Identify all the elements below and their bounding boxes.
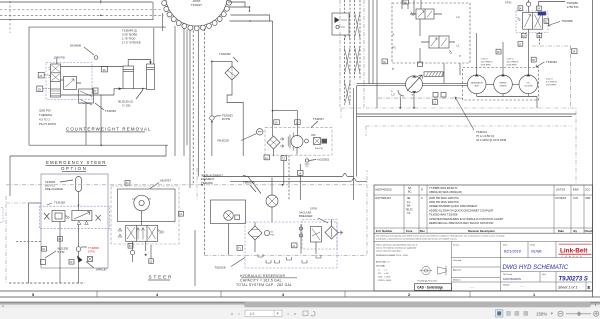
svg-text:and details contained herein i: and details contained herein is prohibit… (376, 238, 458, 241)
svg-text:P: P (392, 67, 394, 71)
svg-text:2: 2 (408, 293, 410, 297)
node dot accumulator line (78, 204, 80, 206)
svg-text:5 PSI: 5 PSI (58, 250, 65, 254)
nav controls (231, 310, 315, 316)
svg-text:5 PSI: 5 PSI (310, 207, 317, 211)
wire staircase right of swivel 1 (228, 2, 245, 7)
leader replacement element (243, 176, 261, 194)
svg-text:›: › (595, 303, 597, 309)
svg-text:COUNTERWEIGHT REMOVAL: COUNTERWEIGHT REMOVAL (66, 127, 152, 132)
pump feed wires (477, 29, 529, 75)
svg-text:∅ .531: ∅ .531 (122, 103, 131, 107)
port square above pump (418, 62, 423, 67)
swivel downline 7 (203, 29, 205, 256)
swivel downline 9 (211, 61, 213, 115)
svg-text:M19740202S: M19740202S (503, 277, 521, 281)
port square 31 (403, 0, 409, 5)
svg-text:M19740202S: M19740202S (376, 188, 392, 192)
revision row C text (376, 196, 591, 225)
wire return bus upper (203, 174, 354, 177)
wire cylinder top link (128, 60, 150, 67)
svg-text:UPDATED PRESSURES IN HYDRAULIC: UPDATED PRESSURES IN HYDRAULIC FUNCTION … (429, 217, 504, 221)
wire long vertical to carrier (272, 21, 274, 136)
svg-text:unless otherwise specified.: unless otherwise specified. (376, 250, 401, 253)
tandem pump enclosure (463, 68, 539, 101)
svg-text:R17T901327: R17T901327 (376, 196, 392, 200)
wire 5psi dashed (16, 241, 42, 243)
port square 10 top (295, 120, 301, 125)
svg-text:ADDED 61J2544 X4 QUICK DISCONN: ADDED 61J2544 X4 QUICK DISCONNET COUPLER (429, 208, 493, 212)
svg-text:6.2 GPM @: 6.2 GPM @ (546, 82, 557, 84)
wire staircase right of swivel 3 (231, 15, 270, 21)
svg-text:8A: 8A (407, 204, 410, 208)
svg-text:COOLER: COOLER (524, 85, 533, 87)
wire accumulator to valve (78, 192, 80, 211)
svg-text:E.O. Number: E.O. Number (376, 229, 392, 233)
steering orbital unit body (118, 189, 176, 225)
wire tick x100 (100, 0, 102, 4)
svg-text:150%: 150% (536, 312, 547, 317)
svg-text:2276 RPM: 2276 RPM (481, 65, 491, 67)
svg-text:REFERENCE ASME Y14.5 - 1994: REFERENCE ASME Y14.5 - 1994 (376, 254, 408, 257)
svg-text:852 PSI: 852 PSI (45, 184, 55, 188)
svg-text:EMERGENCY STEER: EMERGENCY STEER (46, 160, 107, 165)
port squares U CI (433, 93, 446, 98)
check valve T9J0053 (210, 114, 233, 157)
check valve 14R0187 (77, 251, 107, 271)
port square em1 (58, 237, 63, 242)
svg-text:PSI: PSI (271, 234, 275, 236)
steer gray enclosure (111, 186, 179, 244)
sheet bottom border outer (0, 296, 600, 298)
svg-text:A6J0757: A6J0757 (160, 179, 171, 183)
check valve T7J0806 red label (76, 246, 99, 254)
swivel downline 1 (174, 26, 176, 156)
svg-text:CAPACITY = 162.5 GAL: CAPACITY = 162.5 GAL (240, 279, 282, 283)
label T5J0037 (311, 117, 324, 128)
svg-text:R6J0218: R6J0218 (218, 139, 230, 143)
svg-text:0.62 CI: 0.62 CI (546, 79, 553, 81)
svg-text:2276 RPM: 2276 RPM (546, 85, 556, 87)
blue handwritten-style entries (503, 250, 588, 283)
svg-text:T5J0088: T5J0088 (562, 19, 573, 23)
wire pump supply drops (444, 63, 460, 83)
svg-text:T9J0018: T9J0018 (215, 265, 226, 269)
reservoir gray boundary (204, 170, 367, 255)
TITLEBLOCK_LAYER (374, 185, 593, 291)
breather stack (299, 224, 302, 242)
svg-text:Material: Material (453, 279, 461, 282)
svg-text:Sheet 1 of 1: Sheet 1 of 1 (558, 285, 577, 289)
svg-text:E: E (588, 285, 591, 290)
svg-text:42.4 GPM @ 2276 RPM: 42.4 GPM @ 2276 RPM (476, 138, 507, 142)
wire top solid lower (0, 19, 153, 21)
wire option drops to bottom (60, 268, 79, 284)
svg-text:Revision Description: Revision Description (468, 229, 495, 233)
svg-text:MW: MW (586, 196, 591, 200)
boundary dash-dot left horiz (6, 202, 29, 204)
port square 16 top (274, 120, 280, 125)
wire cylinder upper feed from box (153, 28, 155, 64)
node dot y110 (272, 110, 274, 112)
svg-text:»: » (294, 311, 297, 316)
swivel downline 2 (183, 29, 185, 157)
cylinder labels T5J0049 (122, 29, 141, 45)
boundary dash-dot under pump (378, 97, 462, 99)
emergency steer solenoid valve (44, 211, 101, 225)
pump 14R carrier (288, 133, 303, 155)
counterweight valve dashed enclosure (46, 63, 92, 100)
svg-text:Checked: Checked (453, 260, 462, 262)
pump rate labels (481, 59, 557, 87)
svg-text:D: D (421, 188, 423, 192)
lower block small labels (453, 243, 547, 289)
suction bus double vertical (354, 86, 357, 200)
svg-text:ISO Level: ISO Level (503, 274, 513, 276)
zone tick marks (97, 291, 470, 297)
node dots carrier boundary (201, 184, 203, 186)
svg-text:TOTAL SYSTEM CAP - 282 GAL: TOTAL SYSTEM CAP - 282 GAL (236, 283, 292, 287)
wire staircase right of swivel 2 (229, 7, 250, 11)
svg-text:Date: Date (558, 229, 564, 233)
svg-text:GENERATOR: GENERATOR (470, 82, 483, 85)
svg-text:T: T (412, 93, 414, 97)
svg-text:2276 RPM: 2276 RPM (507, 65, 517, 67)
label counterweight removal (66, 127, 152, 133)
svg-text:NONE: NONE (531, 250, 542, 254)
svg-text:L1: L1 (457, 44, 460, 48)
svg-text:SWING/: SWING/ (499, 83, 507, 85)
filter TSA0452 (212, 52, 243, 156)
boundary dash-dot left (5, 196, 7, 283)
cylinder C2 (147, 64, 155, 90)
boundary gray dashed right top (341, 108, 576, 183)
svg-text:4E: 4E (407, 196, 410, 200)
title block outline (374, 185, 593, 291)
node dot steer drop (145, 254, 147, 256)
pump case drain (398, 90, 414, 108)
label emergency steer option (46, 160, 107, 172)
svg-text:1: 1 (533, 293, 535, 297)
port square 12 bottom (264, 155, 270, 160)
svg-text:7B,7C: 7B,7C (406, 207, 414, 211)
svg-text:X: X (459, 54, 461, 58)
svg-text:Rev: Rev (420, 229, 425, 233)
svg-text:T5J0065: T5J0065 (105, 109, 116, 113)
svg-text:CB00(L/R) WAS CB03(L/R): CB00(L/R) WAS CB03(L/R) (429, 190, 462, 194)
wire top dashed A (0, 9, 162, 11)
boundary dash-dot carrier top (6, 184, 367, 186)
scrollbar top shadow (0, 302, 600, 304)
svg-text:Link-Belt: Link-Belt (560, 248, 588, 255)
shaft links between pumps (486, 83, 519, 85)
label vacuum breaker (299, 207, 317, 219)
suction strainer left (248, 222, 262, 252)
svg-text:1080 PSI: 1080 PSI (54, 56, 66, 60)
svg-text:By: By (574, 229, 578, 233)
svg-text:2000 PSI WAS 1200 PSI: 2000 PSI WAS 1200 PSI (429, 196, 459, 200)
revision table header (376, 229, 593, 233)
svg-text:DECIMAL: DECIMAL (376, 265, 386, 268)
svg-text:.X ± .1: .X ± .1 (378, 270, 388, 272)
steer check circle (130, 250, 134, 254)
port square T1 (237, 246, 243, 251)
compensator spring box (424, 72, 444, 77)
svg-text:Zone: Zone (406, 229, 413, 233)
control feed lines (402, 0, 421, 14)
port square 25 (37, 86, 43, 92)
arrow cylinder C1 inlet (119, 87, 122, 90)
wire steer return drop (194, 230, 196, 286)
node dot cylinder junction (142, 88, 144, 90)
port square mid A (496, 49, 501, 54)
swivel downline 6 (197, 30, 199, 176)
wire top dashed B (0, 14, 164, 16)
hose crossing pair A (345, 0, 351, 105)
svg-text:14R0187: 14R0187 (96, 268, 108, 272)
label T5J0013 (455, 97, 507, 142)
port squares steer bottom (128, 244, 133, 249)
svg-text:T7J0886 WAS E5J0171: T7J0886 WAS E5J0171 (429, 186, 458, 190)
svg-text:T5J0037: T5J0037 (313, 117, 324, 121)
svg-text:D6J0690: D6J0690 (70, 44, 82, 48)
wire relief drop (86, 95, 101, 145)
svg-text:14.6 GPM @: 14.6 GPM @ (481, 62, 493, 64)
port square 23 (38, 72, 44, 78)
svg-text:+A3J2552: +A3J2552 (317, 158, 330, 162)
svg-text:AUX: AUX (475, 84, 480, 87)
svg-text:T9J0027: T9J0027 (191, 3, 202, 7)
leader vacuum breaker (318, 218, 328, 223)
svg-text:«: « (231, 311, 234, 316)
wire valve to pump (419, 19, 421, 63)
label A3J2552 (305, 158, 330, 167)
swivel joint T9J0027 body (166, 0, 228, 26)
quick disconnect D6J0690 (70, 44, 98, 60)
component stub left edge (0, 208, 3, 223)
svg-text:ANGULAR ± 1°: ANGULAR ± 1° (376, 261, 390, 264)
svg-text:Weight: Weight (503, 284, 510, 287)
arrow cylinder C2 inlet (149, 62, 152, 64)
svg-text:EAR: EAR (573, 188, 579, 192)
wire unloader dashed drop (539, 32, 541, 46)
label T9J0018 (215, 258, 246, 270)
scrollbar thumb (244, 302, 591, 307)
port square under pump (433, 100, 438, 105)
svg-text:P1: P1 (393, 46, 397, 50)
svg-text:DWG HYD SCHEMATIC: DWG HYD SCHEMATIC (503, 265, 569, 271)
svg-text:ADDED D6J0690 QUICK DISCONNECT: ADDED D6J0690 QUICK DISCONNECT (429, 204, 478, 208)
vacuum breaker valve (325, 220, 343, 240)
svg-text:CAD - Solid Edge: CAD - Solid Edge (417, 286, 443, 290)
wire main top right (528, 0, 530, 13)
wire vacuum stack drop (300, 242, 302, 254)
node dot y21 (249, 20, 251, 22)
port square 26 (102, 66, 108, 72)
wire lower return drop (9, 156, 11, 196)
svg-text:T9J0273 S: T9J0273 S (559, 277, 588, 283)
accumulator T9J0051 (45, 177, 82, 192)
port square 24 right (537, 6, 542, 11)
wire lower return y156 (10, 145, 166, 156)
pump control enclosure (392, 3, 470, 63)
svg-text:Approval: Approval (453, 268, 462, 271)
svg-text:T5J0084: T5J0084 (546, 60, 557, 64)
wire staircase right of swivel 4 (230, 20, 273, 22)
pump drop lines (477, 94, 537, 108)
label T6R0149 (243, 181, 256, 193)
svg-text:STEER: STEER (500, 85, 507, 87)
check valve 66J1330 (41, 246, 69, 264)
label T5J0268 (47, 201, 65, 206)
port square 12b (518, 42, 523, 47)
CAD Solid Edge box (415, 284, 452, 291)
svg-text:10/7/19: 10/7/19 (556, 188, 565, 192)
wire left feeder (29, 202, 42, 204)
svg-text:8/21/2018: 8/21/2018 (504, 250, 522, 254)
control labels (392, 15, 462, 97)
node dots staircase (249, 6, 251, 8)
PDFUI_LAYER (0, 302, 600, 319)
svg-text:OPTION: OPTION (61, 166, 87, 171)
toolbar background (0, 308, 600, 319)
wire valve to pilot (61, 80, 82, 83)
swivel downline 4 (189, 30, 191, 188)
boundary gray dashed right second (366, 125, 572, 127)
port square T2 bottom (281, 156, 287, 161)
wire carrier dashed drop (288, 155, 290, 200)
wire heater drop (315, 242, 317, 254)
wire valve down right (78, 225, 80, 247)
port square 14 low (298, 171, 304, 176)
unloader valve carrier (305, 135, 327, 150)
svg-text:Unless otherwise specified dim: Unless otherwise specified dimensions ar… (376, 244, 418, 247)
boundary gray dashed stub (341, 108, 366, 136)
vacuum breaker enclosure (302, 220, 337, 250)
label T5J0088 (548, 19, 573, 26)
port square 30 (382, 59, 388, 64)
wire port14 drop (299, 164, 301, 200)
wire return bus lower (230, 178, 367, 181)
svg-text:JCC: JCC (585, 188, 590, 192)
immersion heater (311, 227, 322, 243)
svg-text:REMOVED ALL PREVIOUS REV. BLOC: REMOVED ALL PREVIOUS REV. BLOCK NOTATION (429, 221, 493, 225)
tolerance notes (376, 244, 418, 283)
svg-text:5A: 5A (408, 186, 411, 190)
revision table grid (374, 185, 593, 233)
svg-text:4.5 TO 1: 4.5 TO 1 (39, 118, 50, 122)
bottom dashed boundary (9, 282, 85, 284)
label hydraulic reservoir (236, 274, 297, 287)
layout buttons (496, 310, 528, 317)
wire carrier below (273, 149, 275, 156)
wire branch to carrier pump (273, 111, 298, 136)
svg-text:3200 PSI: 3200 PSI (39, 109, 51, 113)
wire top-left riser (152, 2, 154, 20)
svg-text:.XXX ± .003: .XXX ± .003 (378, 277, 391, 279)
pump P2 generator (467, 74, 486, 94)
svg-text:.XX ± .06: .XX ± .06 (378, 273, 390, 275)
node dot box bottom (100, 144, 102, 146)
swivel downline 3 (186, 30, 188, 146)
port square steer right (179, 212, 184, 217)
orifice label 96J2129 (118, 100, 133, 108)
wire cylinders manifold (61, 67, 147, 96)
zoom controls (536, 311, 599, 317)
steer drop lines (133, 241, 152, 262)
unloader valve T9J0088 (516, 11, 548, 33)
label steer (148, 275, 173, 281)
Link-Belt logo (559, 244, 592, 258)
svg-text:Drawn: Drawn (453, 243, 460, 246)
swivel downline 5 (192, 30, 194, 185)
sheet bottom border inner (0, 290, 593, 292)
relief valve T5J0065 (79, 89, 117, 113)
control valve upper (410, 9, 442, 19)
check valve top right (526, 2, 530, 6)
revision row D text (376, 186, 591, 194)
svg-text:THERMAL: THERMAL (39, 113, 53, 117)
svg-text:2500 PSI WAS 3000 PSI: 2500 PSI WAS 3000 PSI (429, 200, 459, 204)
svg-text:T9J0209): T9J0209) (201, 181, 213, 185)
svg-text:PILOT RATIO: PILOT RATIO (39, 122, 57, 126)
svg-text:1 QT CI: 1 QT CI (481, 59, 489, 61)
svg-text:TSA0452: TSA0452 (219, 52, 231, 56)
svg-text:600 PSI: 600 PSI (315, 148, 323, 150)
wire T2 drop (283, 161, 285, 185)
pilot valve small (64, 77, 77, 90)
gauge R6J0218 (218, 129, 263, 143)
pump shaft line (423, 83, 468, 85)
svg-text:The drawing is the property of: The drawing is the property of Link-Belt… (376, 235, 505, 238)
svg-text:A: A (393, 33, 395, 37)
check valve block top (332, 13, 349, 35)
label 3200 PSI block (39, 109, 57, 127)
swivel joint port rings (162, 0, 232, 31)
svg-text:Third Angle Projection: Third Angle Projection (417, 279, 438, 282)
svg-text:T9J0300 WAS T2J0308: T9J0300 WAS T2J0308 (429, 213, 458, 217)
svg-text:HYDRAULIC RESERVOIR: HYDRAULIC RESERVOIR (240, 274, 285, 278)
label T5J0084 (536, 60, 557, 67)
leader 96J2129 (136, 90, 143, 99)
port square steer top (125, 181, 130, 186)
port square 24 left (518, 6, 523, 11)
node dots y108 (399, 107, 401, 109)
svg-text:Check: Check (585, 229, 594, 233)
lower block grid (452, 242, 593, 292)
port square option bottom left (42, 247, 47, 252)
pump P4 oil cooler (519, 74, 538, 94)
port square steer bottom 12 (149, 259, 154, 264)
svg-text:inches. The tolerances below a: inches. The tolerances below are applica… (376, 247, 417, 250)
zone numbers (32, 293, 535, 297)
svg-text:5: 5 (32, 293, 34, 297)
svg-text:9 PSI: 9 PSI (505, 1, 512, 5)
counterbalance valve V1 (49, 64, 61, 97)
svg-text:CJV: CJV (573, 196, 578, 200)
port square 34 top (572, 49, 578, 54)
svg-text:BREAKER: BREAKER (299, 214, 312, 218)
sheet right border (592, 0, 594, 297)
svg-text:19.5 GPM @: 19.5 GPM @ (507, 62, 519, 64)
svg-text:OFF: OFF (311, 135, 316, 137)
suction bus double horizontal (357, 114, 577, 116)
svg-text:CRANES: CRANES (562, 255, 584, 258)
wire ports to valve (43, 75, 51, 89)
label replacement element (201, 174, 223, 185)
steer column label A6J0757 (150, 179, 171, 189)
control valve lower (421, 36, 455, 54)
